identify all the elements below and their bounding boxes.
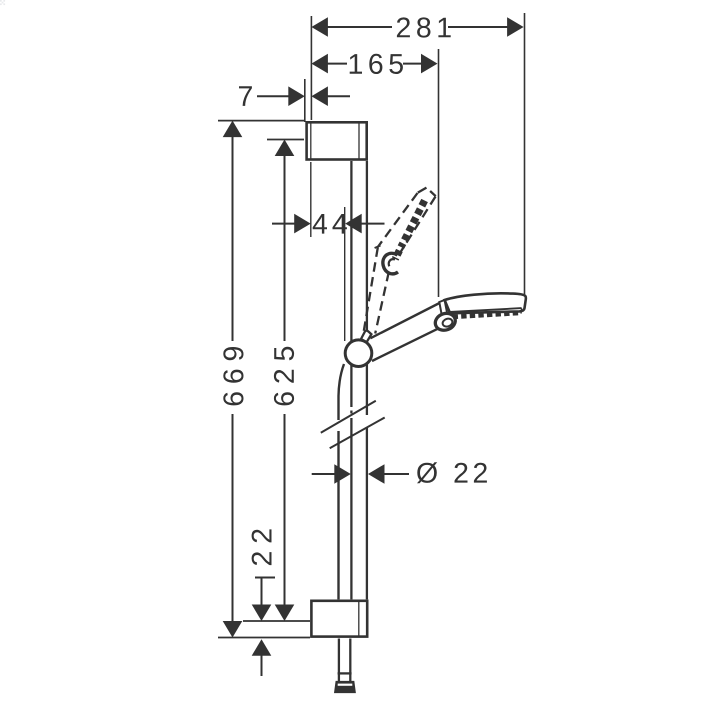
handshower hose nut xyxy=(433,311,458,333)
dashed handshower spray band xyxy=(395,201,424,260)
hose nut bottom xyxy=(335,682,355,693)
hose lower xyxy=(338,639,352,682)
dashed handshower hose nut xyxy=(383,253,398,274)
dimension 7 xyxy=(239,86,350,106)
extension line 165 right xyxy=(438,49,440,297)
reference line 625 top xyxy=(267,139,304,141)
wall bracket bottom xyxy=(311,601,367,637)
extension line wall top xyxy=(310,16,312,120)
reference line rail bottom xyxy=(218,637,310,639)
dimension 625 xyxy=(274,140,294,622)
handshower neck xyxy=(439,300,447,314)
dimension 669 xyxy=(223,121,244,638)
dimension 281 xyxy=(311,17,523,37)
corner artifact xyxy=(0,0,5,5)
wall bracket top xyxy=(307,122,367,159)
dashed handshower xyxy=(364,188,436,334)
wall reference line top xyxy=(218,120,305,122)
extension line 281 right xyxy=(524,13,526,294)
slider lever xyxy=(361,331,371,343)
extension line 44 left xyxy=(310,162,312,237)
extension line 7 left xyxy=(304,79,306,122)
handshower head xyxy=(445,293,526,317)
break lines xyxy=(321,401,385,449)
dimension 44 xyxy=(272,214,385,234)
hose upper xyxy=(339,364,345,420)
handshower spray band xyxy=(453,313,520,317)
dimension diameter 22 xyxy=(312,462,487,484)
dimension 165 xyxy=(311,54,437,74)
handshower handle xyxy=(368,303,444,361)
extension line 44 right xyxy=(344,207,346,341)
reference line bracket hole bottom xyxy=(243,620,310,622)
slider ball xyxy=(345,340,372,367)
dimension 22 bottom xyxy=(252,529,275,676)
rail tube xyxy=(351,161,367,599)
